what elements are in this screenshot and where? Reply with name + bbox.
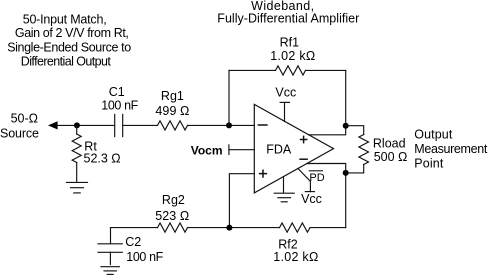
resistor Rload: [359, 135, 369, 165]
svg-text:Gain of 2 V/V from Rt,: Gain of 2 V/V from Rt,: [15, 26, 129, 40]
pin: output minus sign: [300, 158, 307, 160]
node: 50-ohm source label: [0, 112, 39, 141]
ground (below Rt): [67, 182, 88, 193]
svg-text:C2: C2: [125, 235, 141, 249]
note: amplifier title text: [217, 0, 359, 26]
svg-text:50-Ω: 50-Ω: [11, 112, 38, 126]
svg-text:Source: Source: [0, 126, 39, 140]
node: bottom junction dot: [226, 225, 232, 231]
wire: negative output down to Rf2: [345, 173, 347, 228]
wire: Rg1 to FDA inverting input: [188, 124, 255, 126]
svg-text:50-Input Match,: 50-Input Match,: [23, 13, 107, 27]
ground (below FDA): [274, 177, 294, 202]
node: input junction dot: [74, 122, 80, 128]
pin: inverting input minus sign: [258, 124, 267, 126]
pin: output plus sign: [301, 136, 307, 142]
svg-text:Fully-Differential Amplifier: Fully-Differential Amplifier: [217, 12, 359, 26]
ground (below C2): [101, 267, 119, 275]
node: inverting input junction dot: [226, 122, 232, 128]
svg-text:Differential Output: Differential Output: [21, 55, 112, 69]
label output measurement point: [414, 128, 488, 171]
label C2 value: [125, 235, 163, 264]
pin: Vocm input: [229, 145, 254, 155]
wire: Rf2 to negative output riser: [310, 227, 346, 229]
pin: non-inverting input plus sign: [260, 170, 267, 177]
capacitor C2: [98, 228, 122, 265]
wire: positive output to feedback node: [309, 126, 346, 135]
resistor Rg1: [158, 121, 188, 130]
svg-text:500 Ω: 500 Ω: [374, 150, 408, 164]
label Rload value: [373, 137, 407, 164]
wire: Rg2 to bottom junction to Rf2: [188, 227, 280, 229]
label Rg1 value: [155, 89, 189, 118]
pin: PD power-down: [298, 168, 315, 191]
label Rf1 value: [270, 35, 315, 63]
label PD with overline: [309, 172, 324, 184]
resistor Rf1: [276, 66, 306, 75]
resistor Rg2: [158, 223, 188, 232]
wire: C1 to Rg1: [123, 124, 158, 126]
capacitor C1: [115, 114, 123, 136]
svg-text:499 Ω: 499 Ω: [155, 104, 189, 118]
wire: Rload bottom to negative output: [346, 165, 364, 173]
svg-text:Rg2: Rg2: [162, 193, 185, 207]
svg-text:523 Ω: 523 Ω: [155, 209, 189, 223]
svg-text:Rf1: Rf1: [280, 35, 300, 49]
resistor Rt: [72, 125, 81, 182]
op-amp U1 FDA triangle: [254, 104, 333, 192]
svg-text:52.3 Ω: 52.3 Ω: [84, 151, 121, 165]
wire: source arrow to input node: [48, 121, 114, 129]
svg-text:1.02 kΩ: 1.02 kΩ: [273, 250, 318, 264]
svg-text:C1: C1: [109, 85, 125, 99]
svg-text:Vcc: Vcc: [275, 85, 296, 99]
note: circuit description text block: [7, 13, 131, 69]
svg-text:100 nF: 100 nF: [101, 98, 138, 112]
wire: feedback left riser: [228, 70, 230, 125]
label Rf2 value: [273, 238, 318, 264]
node: negative output dot: [343, 170, 349, 176]
label Rt value: [84, 139, 121, 165]
resistor Rf2: [280, 223, 310, 232]
svg-text:Measurement: Measurement: [414, 142, 488, 156]
svg-text:Rload: Rload: [373, 137, 406, 151]
wire: negative output from FDA: [307, 164, 346, 173]
node: positive output dot: [343, 123, 349, 129]
svg-text:Point: Point: [414, 157, 444, 171]
svg-text:Vocm: Vocm: [191, 144, 223, 158]
svg-text:Single-Ended Source to: Single-Ended Source to: [7, 40, 131, 54]
power Vcc top pin: [280, 102, 289, 121]
svg-text:FDA: FDA: [266, 143, 292, 157]
svg-text:100 nF: 100 nF: [126, 250, 163, 264]
wire: C2 to Rg2: [111, 227, 158, 229]
wire: feedback top rail left: [229, 69, 276, 71]
svg-text:1.02 kΩ: 1.02 kΩ: [270, 49, 315, 63]
wire: feedback right riser: [345, 70, 347, 125]
label C1 value: [101, 85, 138, 113]
svg-text:PD: PD: [309, 172, 324, 184]
wire: feedback top rail right: [306, 69, 346, 71]
label Rg2 value: [155, 193, 189, 223]
svg-text:Rg1: Rg1: [161, 89, 184, 103]
wire: positive output to Rload top: [346, 126, 364, 135]
svg-text:Vcc: Vcc: [301, 192, 322, 206]
svg-text:Output: Output: [414, 128, 453, 142]
wire: non-inverting input from bottom junction: [229, 174, 254, 228]
